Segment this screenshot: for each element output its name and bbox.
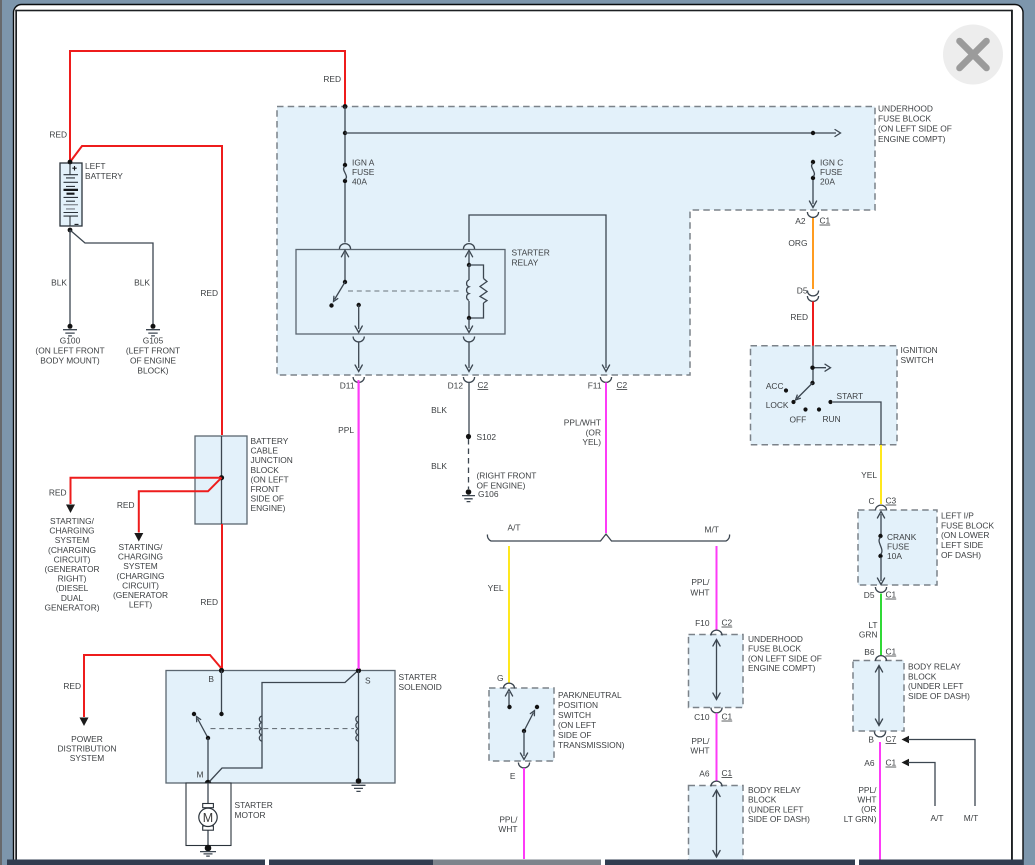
svg-text:WHT: WHT <box>690 746 709 756</box>
svg-text:STARTER: STARTER <box>399 672 437 682</box>
svg-text:(ON LEFT: (ON LEFT <box>251 474 289 484</box>
svg-text:(GENERATOR: (GENERATOR <box>113 590 168 600</box>
svg-text:(DIESEL: (DIESEL <box>56 583 89 593</box>
svg-text:CIRCUIT): CIRCUIT) <box>122 580 159 590</box>
svg-text:C1: C1 <box>722 768 733 778</box>
svg-text:RELAY: RELAY <box>512 258 539 268</box>
svg-text:SYSTEM: SYSTEM <box>123 561 157 571</box>
svg-text:LT GRN): LT GRN) <box>844 814 877 824</box>
svg-text:STARTER: STARTER <box>235 800 273 810</box>
svg-text:UNDERHOOD: UNDERHOOD <box>748 634 803 644</box>
svg-text:G106: G106 <box>478 489 499 499</box>
svg-text:C1: C1 <box>886 758 897 768</box>
svg-text:M: M <box>197 770 204 780</box>
svg-text:LOCK: LOCK <box>766 400 789 410</box>
svg-text:RED: RED <box>63 681 81 691</box>
svg-text:GRN: GRN <box>859 630 878 640</box>
svg-text:40A: 40A <box>352 177 367 187</box>
svg-text:C2: C2 <box>617 380 628 390</box>
svg-text:C1: C1 <box>820 216 831 226</box>
svg-text:RED: RED <box>49 130 67 140</box>
svg-text:RED: RED <box>200 288 218 298</box>
svg-text:START: START <box>837 391 864 401</box>
svg-text:SWITCH: SWITCH <box>901 355 934 365</box>
svg-text:S102: S102 <box>477 432 497 442</box>
svg-text:C3: C3 <box>886 496 897 506</box>
svg-text:(ON LEFT FRONT: (ON LEFT FRONT <box>35 346 104 356</box>
svg-text:A6: A6 <box>864 758 875 768</box>
svg-text:M/T: M/T <box>964 813 978 823</box>
svg-text:FUSE BLOCK: FUSE BLOCK <box>878 114 931 124</box>
svg-text:10A: 10A <box>887 551 902 561</box>
svg-text:M/T: M/T <box>705 525 719 535</box>
svg-text:C1: C1 <box>886 647 897 657</box>
svg-text:BODY RELAY: BODY RELAY <box>908 662 961 672</box>
svg-text:(UNDER LEFT: (UNDER LEFT <box>748 804 803 814</box>
svg-text:C1: C1 <box>722 712 733 722</box>
svg-text:F11: F11 <box>588 381 602 391</box>
svg-text:F10: F10 <box>695 618 710 628</box>
svg-text:RED: RED <box>323 74 341 84</box>
svg-text:WHT: WHT <box>690 588 709 598</box>
svg-text:JUNCTION: JUNCTION <box>251 455 293 465</box>
svg-text:C10: C10 <box>694 712 710 722</box>
svg-text:SIDE OF: SIDE OF <box>251 494 285 504</box>
svg-text:(GENERATOR: (GENERATOR <box>44 564 99 574</box>
svg-text:SOLENOID: SOLENOID <box>399 682 442 692</box>
svg-text:(ON LOWER: (ON LOWER <box>941 530 989 540</box>
svg-text:(LEFT FRONT: (LEFT FRONT <box>126 346 180 356</box>
svg-text:B6: B6 <box>864 647 875 657</box>
svg-text:STARTING/: STARTING/ <box>119 542 164 552</box>
svg-text:FUSE: FUSE <box>820 167 843 177</box>
svg-text:OF ENGINE: OF ENGINE <box>130 356 176 366</box>
svg-text:(RIGHT FRONT: (RIGHT FRONT <box>477 471 537 481</box>
svg-text:RED: RED <box>200 597 218 607</box>
svg-text:YEL: YEL <box>861 470 877 480</box>
svg-text:OF ENGINE): OF ENGINE) <box>477 480 526 490</box>
svg-text:CHARGING: CHARGING <box>118 552 163 562</box>
svg-text:SIDE OF DASH): SIDE OF DASH) <box>748 814 810 824</box>
svg-text:PPL/: PPL/ <box>691 736 710 746</box>
svg-text:C2: C2 <box>478 380 489 390</box>
svg-text:(ON LEFT: (ON LEFT <box>558 720 596 730</box>
svg-text:BLOCK: BLOCK <box>251 465 280 475</box>
svg-text:C7: C7 <box>886 734 897 744</box>
svg-text:RED: RED <box>790 312 808 322</box>
svg-text:(OR: (OR <box>586 427 601 437</box>
svg-text:C: C <box>868 496 874 506</box>
svg-text:LT: LT <box>868 620 877 630</box>
svg-text:FRONT: FRONT <box>251 484 280 494</box>
svg-text:DUAL: DUAL <box>61 593 84 603</box>
svg-text:G105: G105 <box>143 336 164 346</box>
svg-text:(CHARGING: (CHARGING <box>48 545 96 555</box>
svg-text:BODY MOUNT): BODY MOUNT) <box>40 356 100 366</box>
svg-text:D11: D11 <box>340 381 355 391</box>
svg-text:FUSE: FUSE <box>352 167 375 177</box>
svg-text:BATTERY: BATTERY <box>85 171 123 181</box>
svg-text:PARK/NEUTRAL: PARK/NEUTRAL <box>558 690 622 700</box>
svg-text:SYSTEM: SYSTEM <box>70 753 104 763</box>
svg-text:WHT: WHT <box>857 795 876 805</box>
svg-text:RED: RED <box>49 488 67 498</box>
svg-text:LEFT: LEFT <box>85 161 105 171</box>
svg-text:OFF: OFF <box>790 415 807 425</box>
svg-text:BLK: BLK <box>431 461 447 471</box>
svg-text:E: E <box>510 771 516 781</box>
svg-text:ORG: ORG <box>788 238 807 248</box>
svg-text:FUSE BLOCK: FUSE BLOCK <box>941 520 994 530</box>
svg-text:FUSE: FUSE <box>887 542 910 552</box>
svg-text:D12: D12 <box>448 381 464 391</box>
svg-text:A/T: A/T <box>930 813 943 823</box>
svg-text:BLK: BLK <box>134 278 150 288</box>
svg-text:PPL: PPL <box>338 425 354 435</box>
svg-text:PPL/: PPL/ <box>858 785 877 795</box>
svg-text:FUSE BLOCK: FUSE BLOCK <box>748 644 801 654</box>
svg-text:A2: A2 <box>795 216 806 226</box>
svg-text:WHT: WHT <box>498 824 517 834</box>
svg-text:G: G <box>497 673 504 683</box>
svg-text:OF DASH): OF DASH) <box>941 550 981 560</box>
svg-text:POWER: POWER <box>71 734 103 744</box>
svg-text:S: S <box>365 676 371 686</box>
svg-text:IGNITION: IGNITION <box>901 345 938 355</box>
svg-text:GENERATOR): GENERATOR) <box>44 602 99 612</box>
svg-text:IGN A: IGN A <box>352 158 375 168</box>
svg-text:CABLE: CABLE <box>251 446 279 456</box>
svg-text:C1: C1 <box>886 590 897 600</box>
svg-text:ENGINE): ENGINE) <box>251 503 286 513</box>
svg-text:RIGHT): RIGHT) <box>58 574 87 584</box>
svg-text:BLK: BLK <box>431 405 447 415</box>
svg-text:C2: C2 <box>722 618 733 628</box>
svg-text:G100: G100 <box>60 336 81 346</box>
svg-text:(ON LEFT SIDE OF: (ON LEFT SIDE OF <box>878 124 952 134</box>
svg-text:TRANSMISSION): TRANSMISSION) <box>558 740 625 750</box>
svg-text:A6: A6 <box>699 769 710 779</box>
svg-text:LEFT SIDE: LEFT SIDE <box>941 540 984 550</box>
svg-text:SYSTEM: SYSTEM <box>55 535 89 545</box>
svg-text:LEFT I/P: LEFT I/P <box>941 511 974 521</box>
svg-text:PPL/: PPL/ <box>691 577 710 587</box>
svg-text:SIDE OF: SIDE OF <box>558 730 592 740</box>
svg-text:(UNDER LEFT: (UNDER LEFT <box>908 681 963 691</box>
svg-text:SWITCH: SWITCH <box>558 710 591 720</box>
svg-text:PPL/WHT: PPL/WHT <box>564 418 601 428</box>
svg-text:RUN: RUN <box>823 414 841 424</box>
svg-text:CIRCUIT): CIRCUIT) <box>54 554 91 564</box>
svg-text:ENGINE COMPT): ENGINE COMPT) <box>748 663 816 673</box>
svg-text:BLOCK: BLOCK <box>908 671 937 681</box>
svg-text:STARTER: STARTER <box>512 248 550 258</box>
svg-text:CHARGING: CHARGING <box>49 526 94 536</box>
svg-text:ENGINE COMPT): ENGINE COMPT) <box>878 134 946 144</box>
svg-text:(ON LEFT SIDE OF: (ON LEFT SIDE OF <box>748 653 822 663</box>
svg-text:CRANK: CRANK <box>887 532 917 542</box>
svg-text:STARTING/: STARTING/ <box>50 516 95 526</box>
svg-text:POSITION: POSITION <box>558 700 598 710</box>
svg-text:DISTRIBUTION: DISTRIBUTION <box>57 744 116 754</box>
svg-text:MOTOR: MOTOR <box>235 810 266 820</box>
svg-text:BLOCK): BLOCK) <box>137 366 168 376</box>
svg-text:D5: D5 <box>864 590 875 600</box>
svg-text:B: B <box>208 674 214 684</box>
svg-text:RED: RED <box>117 500 135 510</box>
svg-text:PPL/: PPL/ <box>499 815 518 825</box>
svg-text:IGN C: IGN C <box>820 158 843 168</box>
svg-text:UNDERHOOD: UNDERHOOD <box>878 104 933 114</box>
svg-text:D5: D5 <box>797 286 808 296</box>
svg-text:M: M <box>203 811 213 825</box>
svg-text:(CHARGING: (CHARGING <box>117 571 165 581</box>
svg-text:LEFT): LEFT) <box>129 600 152 610</box>
svg-text:ACC: ACC <box>766 381 784 391</box>
svg-text:A/T: A/T <box>508 523 521 533</box>
svg-text:B: B <box>868 735 874 745</box>
svg-text:SIDE OF DASH): SIDE OF DASH) <box>908 691 970 701</box>
svg-text:BLOCK: BLOCK <box>748 795 777 805</box>
svg-text:YEL): YEL) <box>582 437 601 447</box>
svg-text:BATTERY: BATTERY <box>251 436 289 446</box>
svg-text:20A: 20A <box>820 177 835 187</box>
svg-text:BLK: BLK <box>51 278 67 288</box>
svg-text:(OR: (OR <box>861 804 876 814</box>
svg-text:YEL: YEL <box>488 583 504 593</box>
svg-text:BODY RELAY: BODY RELAY <box>748 785 801 795</box>
